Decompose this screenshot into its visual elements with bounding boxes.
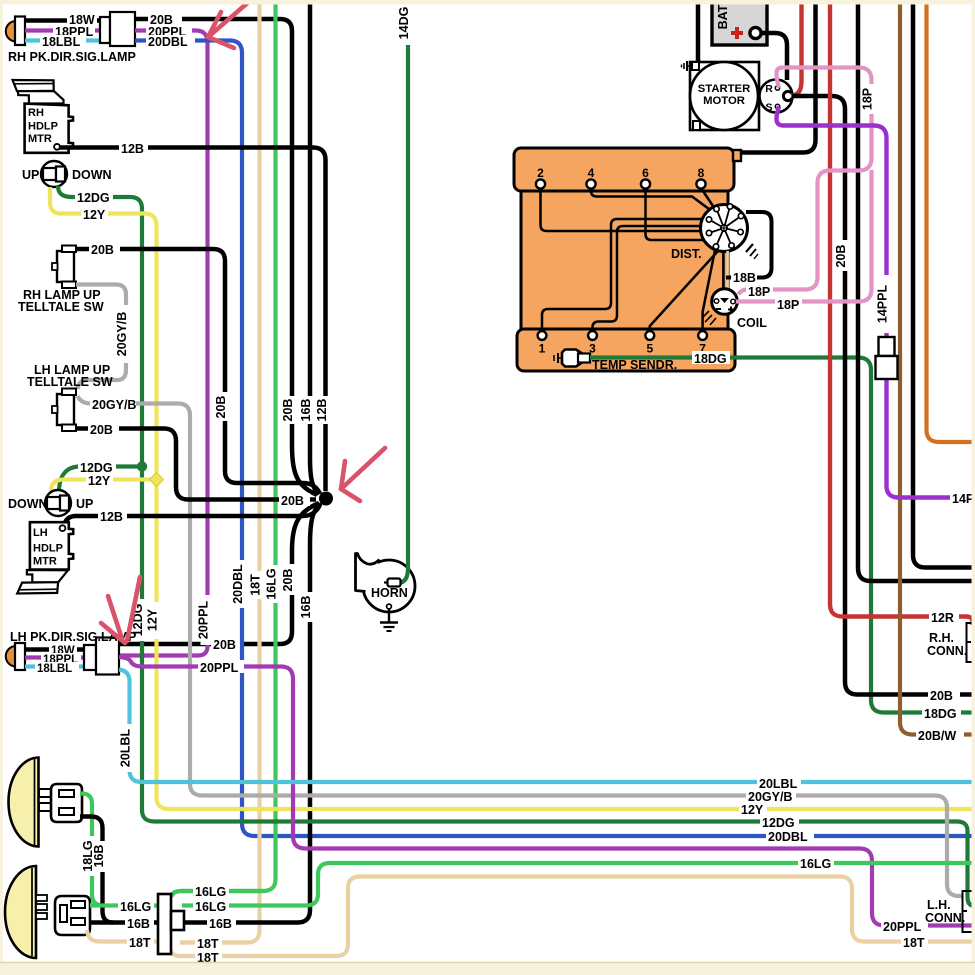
svg-text:12B: 12B — [121, 142, 144, 156]
distributor DIST — [701, 205, 748, 252]
RH lamp connector — [100, 17, 110, 43]
LH LAMP UP TELLTALE SW — [57, 394, 74, 425]
svg-text:16B: 16B — [92, 845, 106, 868]
label 18T right 2 — [195, 950, 222, 963]
svg-text:20B: 20B — [91, 243, 114, 257]
horn — [363, 560, 415, 612]
svg-text:20B: 20B — [281, 569, 295, 592]
wire 20GY/B RH telltale to LH telltale — [76, 285, 126, 390]
wire 16LG lower lamp to strip and right — [90, 903, 158, 907]
svg-text:4: 4 — [588, 166, 595, 180]
svg-text:RH PK.DIR.SIG.LAMP: RH PK.DIR.SIG.LAMP — [8, 50, 136, 64]
svg-text:18T: 18T — [903, 936, 925, 950]
svg-text:BAT: BAT — [716, 4, 730, 29]
svg-text:LH: LH — [33, 527, 48, 539]
svg-text:18DG: 18DG — [694, 352, 727, 366]
engine block tab to starter wire — [733, 150, 741, 161]
wire 20PPL LH lamp lower branch to L.H. conn — [119, 657, 975, 926]
page border frame (cream) — [0, 0, 975, 5]
svg-text:20GY/B: 20GY/B — [748, 790, 792, 804]
svg-text:20LBL: 20LBL — [759, 777, 798, 791]
wire 18LBL RH lamp — [25, 38, 100, 42]
svg-text:R: R — [765, 83, 773, 95]
wire 12Y LH switch — [51, 480, 157, 492]
wire 16B vertical trunk through junction to bottom — [310, 0, 319, 494]
label 18W LH — [49, 644, 77, 655]
svg-text:12Y: 12Y — [146, 608, 160, 631]
svg-text:CONN.: CONN. — [927, 644, 967, 658]
svg-text:20B: 20B — [214, 396, 228, 419]
fusible link symbol on 14PPL — [879, 337, 895, 356]
svg-text:12R: 12R — [931, 611, 954, 625]
svg-text:6: 6 — [642, 166, 649, 180]
svg-text:R.H.: R.H. — [929, 631, 954, 645]
wire 20B RH telltale to junction — [76, 249, 320, 494]
wire 18T strip right to tan trunk — [180, 940, 247, 944]
junction node 20B (black dot) — [319, 492, 333, 506]
label 20LBL bottom — [757, 776, 801, 789]
label 20B/W — [916, 728, 964, 741]
wire black from engine tab up to top edge — [741, 0, 816, 153]
wire 12B LH hdlp mtr to junction — [64, 503, 321, 526]
wire 12DG RH switch to left trunk — [58, 186, 975, 906]
label 20B RH telltale — [89, 243, 120, 255]
coil — [712, 289, 738, 315]
svg-text:16B: 16B — [127, 917, 150, 931]
wire black telltale feed (x=858) to right edge — [858, 0, 975, 581]
svg-text:18P: 18P — [748, 285, 770, 299]
label 12DG RH — [75, 190, 113, 203]
svg-text:MTR: MTR — [28, 133, 52, 145]
LH hdlp DOWN/UP switch — [45, 490, 71, 516]
svg-text:20PPL: 20PPL — [197, 601, 211, 640]
svg-text:16LG: 16LG — [265, 568, 279, 599]
svg-text:HDLP: HDLP — [33, 543, 63, 555]
svg-text:20B: 20B — [90, 423, 113, 437]
svg-text:14DG: 14DG — [397, 7, 411, 40]
red arrow middle (points at 20B junction) — [341, 448, 385, 489]
wire 16LG strip upper branch to 16LG trunk — [171, 891, 263, 897]
wire 18PPL LH lamp — [25, 655, 84, 659]
wire 18PPL RH lamp — [25, 28, 100, 32]
battery positive terminal — [750, 27, 761, 38]
starter ground symbol — [692, 62, 699, 70]
upper headlamp (outer) — [9, 758, 39, 847]
svg-text:DOWN: DOWN — [72, 168, 112, 182]
temp sender symbol — [562, 350, 582, 367]
battery plus — [731, 31, 743, 35]
label 16LG right upper — [193, 884, 229, 897]
horn ground — [387, 604, 392, 609]
spark plug wire cyl 7 — [703, 250, 715, 332]
svg-text:16LG: 16LG — [800, 857, 831, 871]
svg-text:20GY/B: 20GY/B — [115, 312, 129, 356]
label 18W — [67, 13, 97, 25]
label 16LG left — [118, 899, 154, 912]
wire brown 20B/W to R.H. conn — [900, 0, 975, 735]
svg-text:CONN.: CONN. — [925, 911, 965, 925]
svg-text:L.H.: L.H. — [927, 898, 951, 912]
svg-text:20PPL: 20PPL — [200, 661, 239, 675]
svg-text:20DBL: 20DBL — [148, 35, 188, 49]
wire 18LBL LH lamp — [25, 664, 84, 668]
wire 18W RH lamp — [25, 18, 100, 22]
lower headlamp (outer) — [5, 866, 36, 958]
label 20GY/B bottom — [746, 789, 796, 802]
junction dot 12Y — [150, 473, 164, 487]
label 18T left — [127, 935, 154, 948]
label 12R — [929, 610, 958, 623]
wire 20B solenoid to R.H. conn — [792, 96, 975, 695]
LH lamp connector — [84, 645, 96, 670]
svg-text:COIL: COIL — [737, 316, 767, 330]
label 12B LH — [98, 509, 127, 522]
wire 20GY/B LH telltale to bottom run — [78, 396, 964, 896]
wire 18T second from strip bottom across to right — [170, 877, 975, 957]
svg-text:18T: 18T — [129, 936, 151, 950]
solenoid battery terminal — [783, 91, 792, 100]
svg-text:20LBL: 20LBL — [119, 729, 133, 768]
label 16LG right lower — [193, 899, 229, 912]
svg-text:TELLTALE SW: TELLTALE SW — [18, 300, 104, 314]
wire ground lead to starter (top) — [696, 0, 701, 64]
wire 18LG upper lamp down — [80, 794, 103, 906]
svg-text:STARTER: STARTER — [698, 83, 751, 95]
svg-text:20B: 20B — [834, 245, 848, 268]
starter solenoid — [760, 80, 793, 113]
coil ground marks — [705, 315, 712, 322]
spark plug terminals bottom row 1 3 5 7 — [538, 331, 547, 340]
horn terminal — [388, 579, 401, 587]
svg-text:2: 2 — [537, 166, 544, 180]
svg-text:20B: 20B — [281, 399, 295, 422]
battery BAT — [712, 0, 767, 45]
wire 16LG vertical trunk to lower connector — [171, 0, 276, 897]
svg-text:16LG: 16LG — [195, 885, 226, 899]
red arrow top — [208, 0, 251, 37]
svg-text:5: 5 — [646, 342, 653, 356]
label 20PPL bottom right — [881, 919, 928, 932]
spark plug wire cyl 5 — [650, 251, 718, 332]
wire 18B dist to coil loop — [726, 212, 772, 278]
label 20DBL bottom — [766, 829, 814, 842]
svg-text:1: 1 — [539, 342, 546, 356]
starter motor — [690, 62, 759, 130]
distributor ground marks — [746, 244, 753, 252]
label 18DG — [692, 351, 730, 364]
svg-text:18T: 18T — [249, 574, 263, 596]
wire 12R from top to R.H. conn — [830, 0, 929, 617]
distributor center terminal — [721, 225, 727, 231]
spark plug terminals top row 2 4 6 8 — [536, 179, 545, 188]
svg-text:18DG: 18DG — [924, 707, 957, 721]
label 20PPL — [146, 25, 192, 37]
svg-text:TEMP SENDR.: TEMP SENDR. — [592, 358, 677, 372]
label 12Y bottom — [739, 802, 767, 815]
red arrow lower (points at LH lamp connector) — [127, 577, 140, 641]
svg-text:18LBL: 18LBL — [42, 35, 81, 49]
svg-text:HDLP: HDLP — [28, 121, 58, 133]
in-line connector strip — [158, 894, 171, 954]
LH HDLP MTR terminal — [60, 525, 66, 531]
wire 14PPL solenoid S down right side with fusible link — [777, 107, 951, 498]
svg-text:18P: 18P — [861, 88, 875, 110]
label 18B — [731, 271, 757, 283]
LH HDLP MTR body — [30, 522, 73, 569]
svg-text:12B: 12B — [100, 510, 123, 524]
svg-text:16B: 16B — [299, 596, 313, 619]
label 16LG far right — [798, 856, 834, 869]
L.H. CONN bracket — [963, 891, 975, 932]
svg-text:8: 8 — [698, 166, 705, 180]
wire 18DG temp sender to R.H. conn — [590, 358, 975, 713]
engine block (orange) — [521, 170, 728, 345]
wire battery to solenoid — [760, 33, 787, 80]
svg-text:RH: RH — [28, 107, 44, 119]
wire 20PPL RH lamp to LH lamp — [119, 31, 208, 656]
svg-text:20B/W: 20B/W — [918, 729, 956, 743]
wire 18P coil to upper trunk — [736, 170, 872, 302]
wire 20B RH lamp down left trunk to LH lamp — [135, 19, 317, 495]
svg-text:16B: 16B — [299, 399, 313, 422]
wire 12DG LH switch to junction dot — [59, 467, 142, 493]
svg-text:MOTOR: MOTOR — [703, 95, 745, 107]
label 20B RH lamp — [148, 13, 182, 25]
svg-text:18LBL: 18LBL — [37, 663, 72, 675]
junction dot 12DG — [137, 461, 147, 471]
svg-text:20B: 20B — [213, 638, 236, 652]
svg-text:18P: 18P — [777, 298, 799, 312]
label 18P near coil — [746, 284, 773, 297]
wire 18T lower lamp hook to strip — [87, 930, 158, 942]
label 12Y LH — [86, 473, 113, 486]
wire dist to coil (black + tan pair) — [722, 251, 725, 291]
svg-text:20PPL: 20PPL — [883, 920, 922, 934]
label 18LBL LH — [35, 662, 79, 673]
spark plug wire cyl 1 — [542, 219, 705, 332]
LH HDLP MTR visor — [27, 570, 68, 582]
svg-text:DIST.: DIST. — [671, 247, 702, 261]
svg-text:18T: 18T — [197, 937, 219, 951]
label 18T bottom right — [901, 935, 928, 948]
wire 14DG from top to horn — [397, 0, 408, 583]
LH PK.DIR.SIG.LAMP lamp symbol — [6, 646, 16, 667]
svg-text:12DG: 12DG — [762, 816, 795, 830]
spark plug wire cyl 3 — [593, 226, 705, 332]
svg-text:12B: 12B — [315, 399, 329, 422]
wire 16B upper lamp down — [80, 817, 113, 923]
svg-text:20DBL: 20DBL — [231, 564, 245, 604]
wire orange to right edge — [927, 0, 975, 442]
svg-text:20DBL: 20DBL — [768, 830, 808, 844]
svg-text:20GY/B: 20GY/B — [92, 398, 136, 412]
label 20B LH lamp — [211, 638, 244, 651]
svg-text:16LG: 16LG — [195, 900, 226, 914]
label 18PPL — [53, 25, 95, 37]
label 18P second — [775, 297, 802, 310]
label 18PPL LH — [41, 653, 81, 664]
label 20GY/B LH — [90, 396, 136, 409]
label 12DG bottom — [760, 815, 799, 828]
wire 18P solenoid R to coil plus — [739, 68, 872, 295]
svg-text:12Y: 12Y — [83, 208, 106, 222]
lower headlamp connector — [55, 896, 90, 935]
wire red battery feed from top to solenoid BAT terminal — [791, 0, 802, 96]
wire black (x=913) to right edge — [913, 0, 975, 568]
wire 18T vertical trunk to lower connector — [180, 0, 260, 943]
svg-text:12DG: 12DG — [77, 191, 110, 205]
coil plus sign — [728, 309, 734, 311]
spark plug wire cyl 4 — [591, 188, 709, 209]
svg-text:12Y: 12Y — [741, 803, 764, 817]
RH hdlp UP/DOWN switch — [41, 161, 67, 187]
label 18T right 1 — [195, 936, 222, 949]
label 16B left — [125, 916, 154, 929]
label 14PPL right edge — [950, 491, 975, 504]
RH HDLP MTR body — [25, 104, 73, 153]
svg-text:DOWN: DOWN — [8, 497, 48, 511]
label 20B LH telltale — [88, 422, 119, 435]
wire 20B LH telltale to junction — [76, 429, 316, 500]
wire 18W LH lamp — [25, 647, 84, 651]
upper headlamp connector — [51, 784, 82, 822]
starter bottom nub — [693, 121, 700, 130]
R.H. CONN bracket — [967, 623, 975, 662]
svg-text:16LG: 16LG — [120, 900, 151, 914]
svg-text:UP: UP — [76, 497, 93, 511]
RH LAMP UP TELLTALE SW — [57, 251, 74, 282]
spark plug wire cyl 2 — [541, 188, 703, 231]
label 16B right — [207, 916, 236, 929]
svg-text:MTR: MTR — [33, 556, 57, 568]
lower headlamp fins — [36, 895, 47, 901]
RH PK.DIR.SIG.LAMP lamp symbol — [6, 21, 16, 42]
label 12DG LH — [78, 460, 116, 473]
svg-text:18B: 18B — [733, 271, 756, 285]
svg-text:14PPL: 14PPL — [876, 285, 890, 324]
wire 16B lower lamp to strip and up trunk — [90, 920, 158, 924]
spark plug wire cyl 6 — [646, 188, 705, 240]
RH HDLP MTR terminal — [54, 144, 60, 150]
label 18LBL — [40, 35, 86, 47]
svg-text:UP: UP — [22, 168, 39, 182]
svg-text:16B: 16B — [209, 917, 232, 931]
label 20DBL — [146, 35, 195, 47]
svg-text:TELLTALE SW: TELLTALE SW — [27, 375, 113, 389]
svg-text:12Y: 12Y — [88, 474, 111, 488]
wire 20LBL LH lamp to bottom run — [119, 670, 975, 783]
wire 18DG label right — [922, 706, 961, 719]
label 12B RH — [119, 141, 148, 154]
wire 12B RH hdlp mtr to junction — [59, 148, 326, 492]
svg-text:HORN: HORN — [371, 586, 408, 600]
svg-text:12DG: 12DG — [80, 461, 113, 475]
wire 20DBL RH lamp down and across bottom — [135, 41, 975, 837]
label 20PPL LH — [198, 660, 244, 673]
svg-text:S: S — [765, 102, 772, 114]
label 20B at junction — [279, 493, 310, 506]
wire 12Y RH switch to left trunk — [50, 187, 975, 809]
spark plug wire cyl 8 — [701, 188, 713, 206]
svg-text:20B: 20B — [281, 494, 304, 508]
RH HDLP MTR visor — [13, 80, 54, 91]
svg-text:20B: 20B — [930, 689, 953, 703]
label 12Y RH — [81, 207, 108, 220]
